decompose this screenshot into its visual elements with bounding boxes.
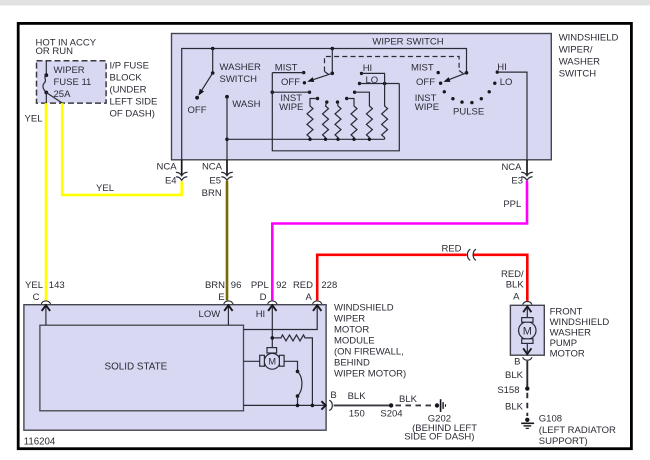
svg-text:NCA: NCA — [501, 162, 522, 173]
svg-text:WASHER: WASHER — [550, 327, 591, 338]
park switch arc — [296, 370, 300, 374]
svg-text:MODULE: MODULE — [334, 335, 375, 346]
wire right brush to park switch — [284, 361, 297, 371]
svg-text:OF DASH): OF DASH) — [110, 108, 155, 119]
wire HI line — [362, 73, 385, 83]
wire bracket MIST/INST to LO — [272, 73, 399, 151]
svg-text:SWITCH: SWITCH — [220, 74, 258, 85]
svg-text:BEHIND: BEHIND — [334, 357, 370, 368]
svg-text:S158: S158 — [497, 385, 519, 396]
ground G202 — [404, 399, 477, 442]
svg-text:A: A — [305, 292, 312, 303]
svg-text:NCA: NCA — [157, 161, 178, 172]
svg-text:WIPE: WIPE — [415, 102, 439, 113]
svg-text:SUPPORT): SUPPORT) — [539, 436, 588, 447]
connector E4 — [157, 160, 188, 187]
wire YEL from fuse to E4 — [62, 103, 182, 195]
svg-text:WINDSHIELD: WINDSHIELD — [559, 33, 619, 44]
pin E — [224, 301, 233, 325]
svg-text:BRN: BRN — [205, 280, 225, 291]
svg-text:B: B — [514, 356, 520, 367]
svg-text:LO: LO — [366, 75, 379, 86]
svg-text:I/P FUSE: I/P FUSE — [110, 60, 149, 71]
svg-text:E5: E5 — [209, 175, 221, 186]
label: WINDSHIELD WIPER/WASHER SWITCH — [559, 33, 619, 80]
wire BLK dashed to G202 — [396, 404, 433, 406]
svg-text:WIPE: WIPE — [279, 102, 303, 113]
right PULSE switch pivot — [444, 71, 469, 82]
svg-text:92: 92 — [276, 280, 287, 291]
wire RED pin A to washer pump — [317, 255, 467, 301]
left INT switch pivot — [307, 47, 334, 82]
svg-text:MOTOR: MOTOR — [550, 348, 585, 359]
wire LO line — [360, 83, 400, 85]
svg-text:WINDSHIELD: WINDSHIELD — [550, 317, 610, 328]
fuse block box — [37, 61, 107, 103]
svg-text:M: M — [523, 326, 532, 338]
wiper motor module box — [24, 305, 326, 431]
label: I/P FUSE BLOCK (UNDER LEFT SIDE OF DASH) — [110, 60, 158, 119]
svg-text:WIPER MOTOR): WIPER MOTOR) — [334, 368, 406, 379]
wire YEL from fuse to pin C — [45, 103, 48, 300]
svg-text:RED: RED — [441, 244, 461, 255]
svg-text:SWITCH: SWITCH — [559, 69, 597, 80]
wire BLK 150 — [334, 404, 392, 406]
pin B connector — [329, 400, 332, 410]
svg-text:SIDE OF DASH): SIDE OF DASH) — [404, 432, 474, 443]
svg-text:HI: HI — [363, 63, 373, 74]
svg-text:OR RUN: OR RUN — [36, 46, 74, 57]
pin C — [41, 301, 50, 325]
svg-text:116204: 116204 — [24, 436, 56, 447]
svg-text:WASHER: WASHER — [559, 57, 600, 68]
svg-text:LO: LO — [500, 77, 513, 88]
wire: switch feed rail — [182, 49, 467, 160]
svg-text:BLK: BLK — [348, 391, 367, 402]
svg-text:B: B — [330, 390, 336, 401]
svg-text:YEL: YEL — [25, 113, 43, 124]
svg-text:BLK: BLK — [506, 279, 525, 290]
wire INST WIPE line — [272, 91, 309, 93]
svg-text:WIPER: WIPER — [54, 65, 85, 76]
wiper switch box — [172, 34, 552, 160]
svg-text:S204: S204 — [380, 409, 402, 420]
motor M2 washer pump — [519, 306, 536, 354]
resistor R3 — [335, 102, 341, 139]
svg-text:MOTOR: MOTOR — [334, 324, 369, 335]
wire left brush — [244, 360, 260, 362]
label: FRONT WINDSHIELD WASHER PUMP MOTOR — [550, 306, 610, 359]
wire module ground rail to pin B — [244, 404, 326, 406]
resistor R5 — [355, 92, 373, 139]
svg-text:D: D — [260, 292, 267, 303]
washer switch — [188, 47, 261, 117]
resistor R1 — [307, 99, 318, 140]
svg-text:E: E — [218, 292, 224, 303]
svg-text:MIST: MIST — [411, 62, 434, 73]
svg-text:SOLID STATE: SOLID STATE — [105, 361, 168, 372]
mechanical linkage dashed — [325, 57, 465, 76]
wire MIST line — [272, 72, 303, 74]
svg-text:G108: G108 — [539, 413, 562, 424]
svg-text:LOW: LOW — [199, 309, 221, 320]
svg-text:RED/: RED/ — [501, 269, 524, 280]
svg-text:BRN: BRN — [202, 188, 222, 199]
wire resistor bottom rail — [227, 138, 385, 140]
svg-text:(ON FIREWALL,: (ON FIREWALL, — [334, 346, 404, 357]
pin A — [244, 301, 322, 330]
svg-text:PPL: PPL — [503, 199, 521, 210]
svg-text:BLK: BLK — [399, 394, 418, 405]
pin B cup — [523, 357, 532, 360]
right switch labels — [411, 62, 512, 118]
svg-text:143: 143 — [49, 280, 65, 291]
svg-text:WIPER/: WIPER/ — [559, 45, 593, 56]
label: HOT IN ACCY OR RUN — [36, 37, 97, 57]
svg-text:PPL: PPL — [251, 280, 269, 291]
svg-text:FRONT: FRONT — [550, 306, 583, 317]
right switch position dots — [437, 70, 499, 104]
svg-text:BLK: BLK — [505, 401, 524, 412]
svg-text:WIPER SWITCH: WIPER SWITCH — [372, 36, 443, 47]
svg-text:228: 228 — [321, 280, 337, 291]
svg-text:C: C — [33, 292, 40, 303]
splice S204 — [389, 403, 393, 407]
svg-text:FUSE 11: FUSE 11 — [54, 77, 92, 88]
svg-text:OFF: OFF — [416, 77, 435, 88]
washer pump box — [510, 305, 544, 355]
wire BLK washer pump — [526, 361, 528, 389]
resistor in module — [274, 335, 312, 406]
wire BRN E5 to pin E — [226, 181, 229, 301]
svg-text:A: A — [513, 291, 520, 302]
resistor R4 — [347, 99, 357, 140]
svg-text:RED: RED — [293, 280, 313, 291]
svg-text:150: 150 — [349, 409, 365, 420]
svg-text:WASH: WASH — [232, 99, 260, 110]
connector E5 — [202, 160, 233, 187]
label: module side text — [334, 302, 406, 379]
svg-text:WINDSHIELD: WINDSHIELD — [334, 302, 394, 313]
svg-text:WASHER: WASHER — [220, 62, 261, 73]
svg-text:LEFT SIDE: LEFT SIDE — [110, 96, 158, 107]
svg-text:PULSE: PULSE — [453, 107, 484, 118]
pin A bump — [523, 302, 532, 305]
wire WASH to E5 — [226, 97, 228, 160]
pin D — [268, 301, 277, 348]
svg-text:PUMP: PUMP — [550, 338, 577, 349]
connector E3 — [501, 160, 532, 187]
left INT switch labels — [275, 62, 378, 113]
svg-text:(UNDER: (UNDER — [110, 84, 147, 95]
ground G108 — [521, 413, 616, 447]
left INT switch position dots — [302, 71, 363, 104]
svg-text:96: 96 — [231, 280, 242, 291]
svg-text:NCA: NCA — [202, 161, 223, 172]
solid state box — [40, 325, 244, 411]
svg-text:WIPER: WIPER — [334, 313, 365, 324]
svg-text:BLOCK: BLOCK — [110, 72, 143, 83]
svg-text:(LEFT RADIATOR: (LEFT RADIATOR — [539, 425, 616, 436]
wire HI to E3 — [497, 72, 527, 160]
node WASH contact — [225, 95, 229, 99]
inline connector on RED wire — [467, 249, 470, 260]
svg-text:MIST: MIST — [275, 62, 298, 73]
fuse F11 symbol — [43, 61, 62, 103]
svg-text:HI: HI — [256, 309, 266, 320]
motor M1 in module — [260, 348, 284, 370]
svg-text:YEL: YEL — [96, 183, 114, 194]
resistor R2 — [323, 102, 329, 139]
splice S158 — [525, 386, 529, 390]
svg-text:OFF: OFF — [188, 105, 207, 116]
svg-text:M: M — [268, 357, 276, 367]
svg-text:E4: E4 — [165, 175, 177, 186]
svg-text:YEL: YEL — [25, 280, 43, 291]
wire BLK dashed to G108 — [526, 393, 528, 416]
svg-text:BLK: BLK — [505, 370, 524, 381]
resistor R6 — [382, 84, 388, 140]
pin labels above module — [25, 280, 337, 320]
svg-text:OFF: OFF — [281, 77, 300, 88]
svg-text:E3: E3 — [511, 175, 523, 186]
wire PPL E3 to pin D — [272, 181, 527, 301]
